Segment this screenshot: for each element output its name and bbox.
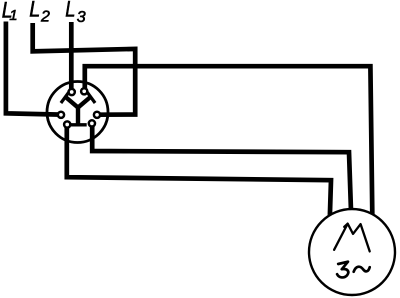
svg-text:3: 3	[77, 9, 86, 26]
svg-text:1: 1	[9, 7, 17, 24]
svg-text:L: L	[65, 0, 75, 21]
svg-text:L: L	[29, 0, 40, 21]
svg-text:2: 2	[40, 9, 50, 26]
